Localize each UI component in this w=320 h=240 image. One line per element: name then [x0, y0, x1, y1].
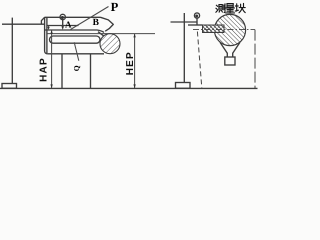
- right gauge stem: [196, 18, 198, 25]
- surface plate baseline: [0, 87, 258, 89]
- pedestal right edge: [90, 54, 92, 88]
- gauge stem with arrow to A: [61, 20, 64, 30]
- cylinder centerline (dash-dot): [193, 29, 255, 31]
- dial gauge circle (left): [60, 14, 65, 19]
- V-support foot: [225, 57, 235, 65]
- part P step line: [47, 25, 79, 27]
- part P left outer edge: [45, 17, 48, 54]
- left stand arm: [2, 23, 45, 25]
- part P left inner edge: [46, 17, 48, 53]
- gauge contact down-arrow on A: [48, 26, 50, 30]
- V-support left jaw: [220, 42, 227, 57]
- cylinder E (hatched circle): [100, 34, 120, 54]
- part P bottom face: [48, 53, 104, 55]
- svg-text:B: B: [93, 18, 100, 28]
- pedestal left edge: [61, 54, 63, 88]
- svg-text:A: A: [65, 20, 72, 30]
- surface A line: [45, 30, 104, 32]
- part P nose chamfer: [101, 17, 114, 31]
- part P top-left chamfer: [41, 17, 44, 24]
- HEP extension line tangent to cylinder top: [47, 33, 155, 35]
- right stand base: [176, 83, 191, 89]
- label A: [65, 20, 72, 30]
- 块: [235, 4, 238, 11]
- HAP dimension line: [50, 30, 52, 88]
- phantom box left edge: [197, 32, 201, 88]
- HEP text: [125, 51, 136, 75]
- label Q with leader: [72, 42, 81, 71]
- HEP dimension line: [133, 34, 135, 89]
- svg-text:P: P: [111, 0, 119, 14]
- slot Q (stadium): [50, 36, 101, 43]
- label B: [93, 18, 100, 28]
- svg-text:Q: Q: [72, 65, 81, 71]
- HAP text: [38, 57, 49, 82]
- 测: [216, 5, 218, 12]
- phantom box right edge: [254, 30, 256, 88]
- left stand pole: [11, 18, 13, 84]
- svg-text:HAP: HAP: [38, 57, 49, 82]
- label 测量块 (hand-drawn glyphs): [216, 3, 245, 13]
- svg-text:HEP: HEP: [125, 51, 136, 75]
- gauge block (crosshatched): [203, 25, 225, 33]
- gauge block top extension: [188, 24, 203, 26]
- left stand base: [2, 84, 17, 89]
- 量: [227, 4, 233, 7]
- V-support right jaw: [233, 42, 240, 57]
- label P with leader: [71, 0, 119, 30]
- dial gauge circle (right): [194, 13, 199, 18]
- right stand arm: [171, 21, 197, 23]
- part P top edge: [45, 16, 101, 18]
- part P nose under edge: [98, 32, 107, 39]
- right stand pole: [183, 13, 185, 83]
- measured cylinder (large hatched circle): [214, 14, 245, 45]
